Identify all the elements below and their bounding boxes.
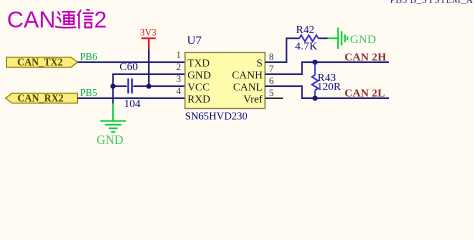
svg-text:GND: GND	[350, 32, 376, 46]
title CAN通信2	[7, 7, 107, 33]
junction R43 top	[312, 60, 317, 65]
wire 3V3 drop to VCC row	[148, 50, 150, 87]
svg-text:R42: R42	[296, 24, 314, 36]
wire PB6 to pin1	[78, 61, 186, 63]
svg-text:CAN_RX2: CAN_RX2	[17, 93, 63, 104]
svg-text:PB5 B_SYSTEM_A: PB5 B_SYSTEM_A	[390, 0, 473, 6]
junction R43 bottom	[312, 96, 317, 101]
svg-text:120R: 120R	[317, 81, 342, 93]
svg-text:U7: U7	[187, 33, 202, 47]
wire GND pin2 route	[113, 74, 185, 104]
sheet background	[0, 0, 474, 163]
svg-text:GND: GND	[188, 70, 212, 82]
resistor R43	[314, 62, 316, 75]
capacitor C60	[128, 79, 132, 94]
svg-text:2: 2	[176, 63, 181, 73]
svg-text:TXD: TXD	[188, 58, 210, 70]
svg-text:Vref: Vref	[243, 94, 263, 106]
port CAN_TX2	[7, 57, 78, 67]
svg-text:CAN 2H: CAN 2H	[345, 51, 387, 63]
svg-text:2: 2	[94, 7, 107, 33]
junction at cap left	[110, 84, 115, 89]
ground symbol left	[100, 104, 126, 132]
wire R42 to ground	[318, 37, 327, 39]
svg-text:CAN: CAN	[7, 7, 56, 33]
svg-text:CAN_TX2: CAN_TX2	[17, 57, 63, 68]
svg-text:RXD: RXD	[188, 94, 211, 106]
wire VCC row with capacitor gap	[133, 85, 185, 87]
svg-text:CAN 2L: CAN 2L	[345, 87, 386, 99]
svg-text:C60: C60	[120, 61, 139, 73]
wire CANL to CAN_2L	[265, 86, 389, 98]
resistor R42	[299, 35, 318, 41]
ground symbol right (rotated)	[328, 28, 348, 49]
svg-text:GND: GND	[97, 133, 124, 147]
wire CANH to CAN_2H	[265, 62, 389, 74]
svg-text:CANL: CANL	[233, 82, 262, 94]
port CAN_RX2	[6, 93, 78, 103]
svg-text:4: 4	[176, 87, 181, 97]
svg-text:3V3: 3V3	[140, 29, 157, 39]
wire pin8 S up to R42	[265, 38, 299, 62]
svg-text:PB5: PB5	[80, 88, 97, 99]
svg-text:1: 1	[176, 51, 181, 61]
pin 5 stub (unconnected Vref)	[265, 97, 283, 99]
svg-text:104: 104	[124, 98, 141, 110]
IC U7 body	[185, 53, 265, 109]
svg-text:3: 3	[176, 75, 181, 85]
svg-text:SN65HVD230: SN65HVD230	[185, 112, 247, 123]
power port 3V3	[140, 29, 157, 50]
svg-text:PB6: PB6	[80, 52, 97, 63]
svg-text:4.7K: 4.7K	[295, 40, 318, 52]
wire PB5 to pin4	[78, 97, 186, 99]
junction at 3V3/VCC	[146, 84, 151, 89]
svg-text:VCC: VCC	[188, 82, 210, 94]
svg-text:CANH: CANH	[232, 70, 263, 82]
svg-text:S: S	[256, 58, 262, 70]
